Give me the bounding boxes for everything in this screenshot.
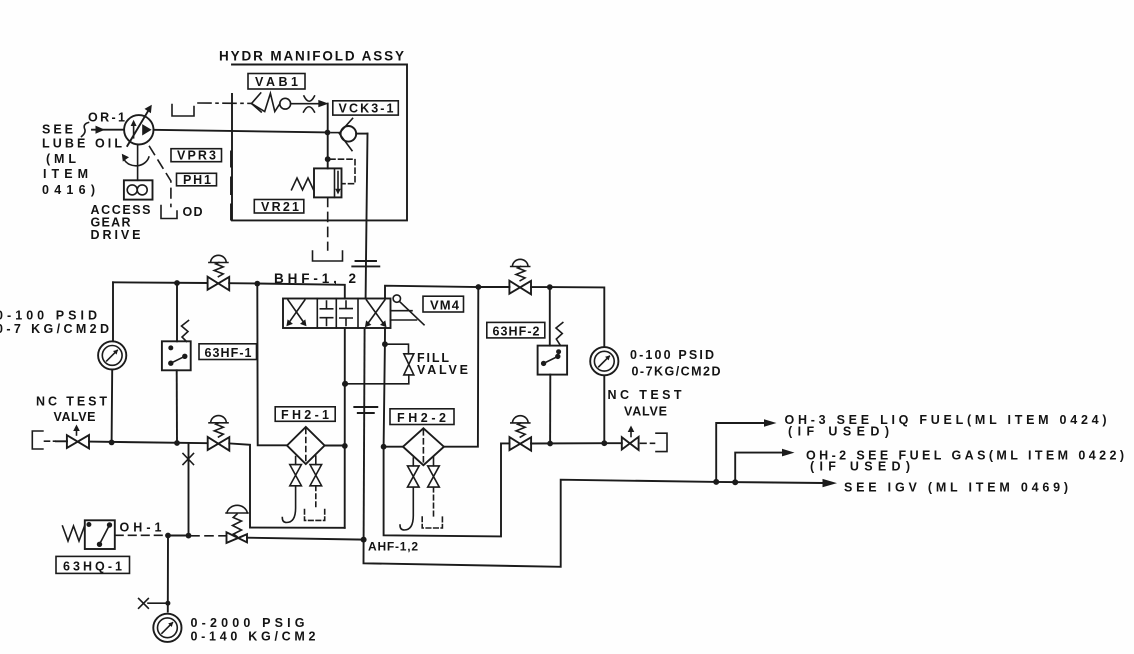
dashed drain of VR21 down to bracket [327, 197, 329, 250]
union symbol BHF [274, 261, 379, 286]
node at VR21 pilot [325, 156, 331, 162]
wire: pump suction with continuation squiggle and arrow [82, 111, 126, 137]
node right header left [476, 284, 482, 290]
node left header tee [174, 280, 180, 286]
port bracket OD [161, 205, 203, 219]
capped tap with X on bottom left header [183, 444, 194, 535]
dashed pilot loop of VR21 [330, 159, 355, 184]
node IGV header a [713, 479, 719, 485]
node IGV header b [732, 479, 738, 485]
wire: bottom right header [531, 442, 622, 444]
svg-text:0-100 PSID: 0-100 PSID [0, 309, 97, 323]
svg-text:AHF-1,2: AHF-1,2 [368, 540, 418, 554]
label PH1 [177, 173, 217, 187]
pressure regulator VR21 [254, 168, 341, 214]
wire: AHF node down to gas turbine run [364, 480, 717, 567]
svg-text:0-7KG/CM2D: 0-7KG/CM2D [632, 365, 721, 379]
union symbol AHF [354, 407, 377, 413]
wire: right header [478, 286, 509, 288]
FH2-2 enclosure wire [384, 443, 510, 536]
svg-text:VALVE: VALVE [54, 410, 96, 424]
check valve VCK3-1 [331, 101, 398, 151]
svg-text:63HF-2: 63HF-2 [493, 324, 540, 338]
svg-text:OD: OD [183, 205, 203, 219]
wire: bottom left header [89, 442, 208, 444]
FH2-1 drain hook and dashed drain port [282, 486, 324, 523]
wire: BHF header right segment [385, 286, 478, 299]
node at pump line [325, 130, 331, 136]
fill valve branch [342, 341, 468, 386]
wire between OH-1 nodes [168, 535, 189, 537]
svg-text:HYDR MANIFOLD ASSY: HYDR MANIFOLD ASSY [219, 49, 404, 64]
node 63HF-2 tee [547, 284, 553, 290]
node FH2-2 inlet drop [381, 444, 387, 450]
svg-text:OR-1: OR-1 [88, 111, 125, 125]
dashed drive line to OD port [150, 147, 171, 207]
node FH2-1 outlet [342, 443, 348, 449]
filter FH2-2 [390, 409, 454, 465]
svg-text:LUBE OIL: LUBE OIL [42, 137, 122, 151]
text OH-2 SEE FUEL GAS [806, 449, 1124, 474]
relief valve OH-1 line [226, 505, 248, 543]
pressure switch 63HF-1 [162, 283, 257, 443]
svg-text:63HF-1: 63HF-1 [205, 346, 252, 360]
pressure switch 63HF-2 [487, 287, 567, 443]
port bracket below VR21 [313, 251, 343, 261]
FH2-1 drain valves [290, 456, 322, 486]
wire: down from OH-1 node to bottom gauge [167, 536, 169, 612]
pump OR-1 (main hydraulic pump circle with flow arrows) [124, 105, 153, 146]
wire: pump shaft down to gear drive [137, 145, 139, 181]
svg-text:VM4: VM4 [430, 298, 460, 313]
VM4 pilot lever and port [391, 295, 425, 325]
filter FH2-1 [275, 407, 335, 464]
wire: pump discharge to check valve [154, 130, 328, 133]
wire: VM4 A-port down (left) [344, 328, 346, 528]
NC test valve right [608, 388, 682, 452]
wire: header valve to gauge drop [531, 287, 604, 346]
wire: FH2-1 outlet to VM4 line [325, 445, 345, 447]
node bottom 63HF-2 [547, 441, 553, 447]
node AHF-1,2 [361, 537, 367, 543]
node 63HF-1 drop [174, 440, 180, 446]
relief valve left header [208, 255, 230, 290]
wire: VM4 T-port down to AHF node [364, 328, 365, 539]
wire: to SEE IGV arrow [716, 482, 822, 483]
capped tap X at bottom gauge [139, 599, 168, 609]
svg-text:SEE: SEE [42, 123, 73, 137]
node header to filter drop [254, 281, 260, 287]
gauge 0-100 PSID right [590, 347, 618, 375]
text 0-100 PSID left [0, 309, 109, 337]
label VM4 [423, 296, 464, 312]
NC test valve left [32, 395, 107, 450]
gauge 0-2000 PSIG [153, 614, 181, 642]
node OH-1 b [186, 533, 192, 539]
gauge 0-100 PSID left [98, 341, 126, 369]
relief valve VAB1 (arrow, spring, ball, disconnect) [248, 74, 329, 113]
svg-text:FH2-2: FH2-2 [397, 411, 446, 425]
text 0-100 PSID right [630, 348, 721, 379]
FH2-2 drain hook and dashed drain port [400, 487, 442, 530]
wire: up to OH-2 arrow [735, 449, 794, 482]
text 0-2000 PSIG [191, 616, 316, 644]
manifold enclosure HYDR MANIFOLD ASSY [219, 49, 407, 221]
node fill loop left [342, 381, 348, 387]
pressure switch 63HQ-1 [56, 520, 130, 573]
dashed wire 63HQ-1 to node [116, 534, 166, 536]
port bracket at VAB1 pilot line [172, 105, 194, 117]
FH2-2 drain valves [408, 457, 440, 487]
accessory gear drive box [91, 180, 153, 242]
svg-text:OH-1: OH-1 [120, 521, 162, 535]
relief valve bottom right header [510, 416, 532, 451]
wire: FH2-2 outlet up to right header [444, 287, 478, 447]
svg-text:FH2-1: FH2-1 [281, 408, 329, 422]
wire: below right gauge [603, 377, 605, 444]
note SEE LUBE OIL (ML ITEM 0416) [42, 123, 122, 198]
wire: up to OH-3 arrow [716, 419, 776, 482]
wire: VM4 B-port down (right) [384, 328, 385, 447]
relief valve bottom left header [208, 416, 230, 451]
node bottom right gauge [601, 440, 607, 446]
node bottom gauge tap [165, 601, 170, 606]
label VPR3 [171, 149, 222, 163]
wire: VAB1 junction down past check valve to VR21 [327, 104, 329, 169]
wire: below left gauge [111, 370, 114, 443]
wire: header drop to FH2-1 inlet [257, 284, 287, 446]
dash-dot pilot wire to VAB1 [198, 102, 251, 104]
text OH-3 SEE LIQ FUEL [785, 413, 1107, 439]
svg-text:VALVE: VALVE [624, 405, 667, 419]
svg-text:0-140 KG/CM2: 0-140 KG/CM2 [191, 630, 316, 644]
transfer valve VM4 [283, 299, 391, 329]
svg-text:DRIVE: DRIVE [91, 228, 141, 242]
node OH-1 a [165, 533, 171, 539]
wire: OH-1 valve to AHF node [247, 538, 364, 540]
node gauge drop [109, 440, 115, 446]
pump rotation arc arrow [122, 154, 149, 166]
svg-text:VR21: VR21 [261, 200, 299, 214]
wire: header valve to VM4 [229, 283, 345, 298]
dashed wire to OH-1 relief valve [191, 535, 226, 537]
svg-text:0-100 PSID: 0-100 PSID [630, 348, 714, 362]
wire: drop to FH2-2 inlet [384, 446, 403, 448]
svg-text:PH1: PH1 [183, 173, 211, 187]
left circuit: gauge drop wire [112, 282, 114, 341]
wire: main supply down from check valve to VM4 [366, 134, 368, 299]
wire: valve to filter enclosure corner [229, 443, 344, 527]
relief valve right header [509, 259, 531, 294]
wire: BHF header left segment [113, 281, 208, 284]
